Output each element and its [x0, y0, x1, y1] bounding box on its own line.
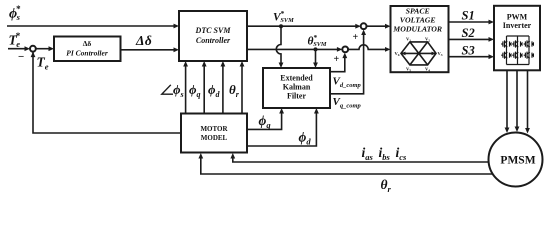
svg-text:Filter: Filter: [287, 91, 307, 100]
node phi_q output label: [259, 113, 272, 130]
svg-text:ics: ics: [396, 145, 408, 162]
wire phase A from inverter to PMSM: [505, 70, 510, 133]
svg-text:ibs: ibs: [379, 145, 391, 162]
svg-text:Extended: Extended: [280, 73, 313, 82]
wire theta junction to SVM block with hop over vertical: [348, 45, 390, 52]
svg-text:ϕd: ϕd: [299, 130, 312, 147]
svg-text:Te: Te: [37, 55, 49, 72]
node phi_q label column: [189, 82, 201, 99]
wire phi_q from motor model to DTC: [202, 61, 207, 114]
node T_e feedback torque label: [37, 55, 49, 72]
PI controller block: [54, 37, 121, 62]
wire theta_r from motor model to DTC: [240, 61, 245, 114]
wire phi_s* to DTC controller: [7, 24, 179, 29]
svg-text:MODEL: MODEL: [201, 134, 228, 142]
node V_q_comp label: [333, 96, 362, 110]
wire S1: [448, 20, 494, 25]
svg-text:ϕ*s: ϕ*s: [9, 4, 21, 22]
svg-text:θr: θr: [229, 82, 240, 99]
op block SPACE VOLTAGE MODULATOR U4: [391, 6, 449, 72]
svg-text:Vd_comp: Vd_comp: [333, 76, 362, 90]
space vector hexagon inside modulator: [395, 37, 443, 73]
wire phase C from inverter to PMSM: [525, 70, 530, 133]
op block PWM Inverter U5: [494, 6, 540, 71]
summing junction theta circle: [342, 47, 348, 53]
transistor Q5 top leg C: [524, 40, 534, 47]
svg-text:DTC SVM: DTC SVM: [195, 26, 232, 35]
svg-text:θ*SVM: θ*SVM: [308, 33, 327, 48]
wire V junction to SVM block: [367, 24, 391, 29]
wire phi_q from motor model to Kalman filter: [247, 108, 284, 129]
wire T_e feedback from motor model to summing junction: [31, 52, 181, 133]
node theta_r feedback label: [381, 177, 392, 194]
node junction dot on theta wire: [314, 47, 318, 51]
transistor Q1 top leg A: [501, 40, 511, 47]
svg-text:PMSM: PMSM: [500, 154, 535, 166]
node junction dot on V*_SVM wire: [279, 24, 283, 28]
node S2 label: [462, 26, 475, 40]
wire rotor angle theta_r from PMSM to motor model: [198, 153, 492, 174]
svg-text:MODULATOR: MODULATOR: [392, 24, 442, 33]
op block MOTOR MODEL U2: [181, 114, 247, 153]
transistor Q6 bottom leg C: [524, 52, 534, 59]
wire S3: [448, 54, 494, 59]
wire V_d_comp from Kalman filter up to theta junction: [330, 53, 347, 72]
wire theta*_SVM from DTC to theta summing junction: [247, 47, 342, 52]
node angle phi_s label: [162, 82, 184, 99]
svg-text:ϕs: ϕs: [173, 82, 184, 99]
wire stator currents i_as i_bs i_cs from PMSM to motor model: [230, 153, 488, 162]
wire angle phi_s from motor model to DTC: [183, 61, 188, 114]
svg-text:T*e: T*e: [9, 31, 21, 49]
node S3 label: [462, 44, 475, 58]
node plus sign at V junction: [353, 32, 359, 43]
motor PMSM: [489, 133, 543, 187]
svg-text:ias: ias: [362, 145, 374, 162]
wire V_q_comp from Kalman filter up to V junction: [330, 30, 366, 94]
svg-text:Controller: Controller: [196, 36, 231, 45]
wire PI controller to DTC controller: [121, 47, 180, 52]
wire phase B from inverter to PMSM: [515, 70, 520, 132]
wire summing junction to PI controller: [36, 46, 54, 51]
node theta*_SVM label: [308, 33, 327, 48]
wire S2: [448, 37, 494, 42]
svg-text:S2: S2: [462, 26, 475, 40]
summing junction V circle: [361, 23, 367, 29]
op block Extended Kalman Filter U3: [263, 68, 330, 108]
wire phi_d from motor model to Kalman filter: [247, 108, 319, 146]
node theta_r label column: [229, 82, 240, 99]
node V_d_comp label: [333, 76, 362, 90]
svg-text:ϕq: ϕq: [189, 82, 201, 99]
transistor Q3 top leg B: [512, 40, 522, 47]
transistor Q2 bottom leg A: [501, 52, 511, 59]
svg-text:Δδ: Δδ: [135, 33, 152, 48]
svg-text:VOLTAGE: VOLTAGE: [400, 15, 436, 24]
svg-text:Δδ: Δδ: [83, 39, 92, 48]
node T_e* reference torque input label: [9, 31, 21, 49]
node minus sign: [18, 51, 24, 63]
node S1 label: [462, 9, 475, 23]
svg-text:Vq_comp: Vq_comp: [333, 96, 362, 110]
svg-text:+: +: [353, 32, 359, 43]
svg-text:ϕq: ϕq: [259, 113, 272, 130]
node Delta-delta label on wire: [135, 33, 152, 48]
node V*_SVM label: [273, 9, 294, 24]
node phi_d label column: [208, 82, 221, 99]
svg-text:S3: S3: [462, 44, 475, 58]
svg-text:MOTOR: MOTOR: [200, 125, 228, 133]
node phi_s* reference flux input label: [9, 4, 21, 22]
wire phi_d from motor model to DTC: [221, 61, 226, 114]
wire V*_SVM from DTC to V summing junction: [247, 24, 361, 29]
svg-text:S1: S1: [462, 9, 475, 23]
wire theta branch down to Kalman filter: [313, 49, 318, 68]
summing junction torque comparator: [30, 46, 36, 52]
svg-text:V*SVM: V*SVM: [273, 9, 294, 24]
svg-text:Inverter: Inverter: [503, 21, 532, 30]
node currents label i_as i_bs i_cs: [362, 145, 408, 162]
inverter bridge graphic inside PWM block: [507, 36, 530, 65]
transistor Q4 bottom leg B: [512, 52, 522, 59]
svg-text:SPACE: SPACE: [406, 7, 430, 16]
svg-text:Kalman: Kalman: [283, 82, 311, 91]
wire V branch down to Kalman filter with hop: [276, 26, 283, 68]
svg-text:−: −: [18, 51, 24, 63]
node plus sign at theta junction: [334, 54, 340, 65]
svg-text:PI Controller: PI Controller: [66, 48, 108, 57]
svg-text:θr: θr: [381, 177, 392, 194]
svg-text:ϕd: ϕd: [208, 82, 221, 99]
node phi_d output label: [299, 130, 312, 147]
wire T_e* to summing junction: [8, 46, 30, 51]
op block DTC SVM Controller U1: [179, 11, 247, 61]
svg-text:+: +: [334, 54, 340, 65]
